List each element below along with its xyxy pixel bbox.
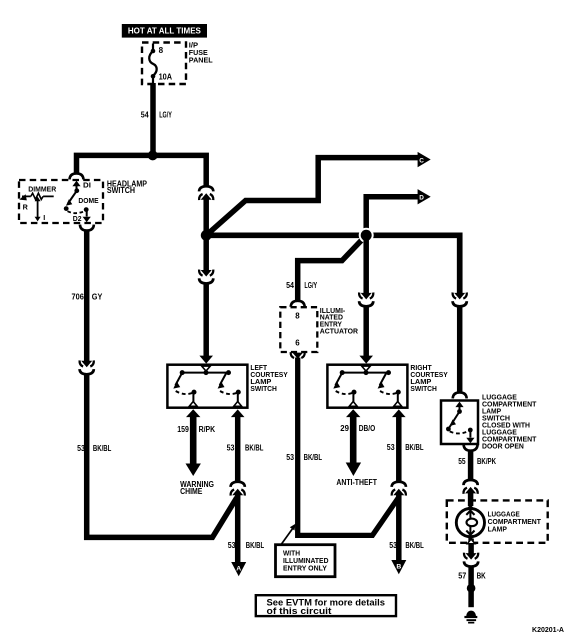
- svg-text:BK/BL: BK/BL: [304, 452, 323, 462]
- svg-text:BK: BK: [477, 570, 487, 580]
- svg-text:CHIME: CHIME: [180, 487, 203, 496]
- headlamp switch bottom pin cup: [80, 225, 94, 231]
- wire junction to right courtesy connector: [363, 235, 369, 294]
- svg-text:LUGGAGE: LUGGAGE: [482, 429, 517, 436]
- fuse 8 10A: [149, 44, 172, 84]
- wire label 55 BK/PK: [458, 456, 496, 466]
- wire 159 R/PK to warning chime: [186, 409, 201, 476]
- actuator top pin cup: [291, 301, 305, 307]
- svg-text:D2: D2: [73, 214, 82, 223]
- svg-text:53: 53: [227, 443, 235, 453]
- svg-text:SWITCH: SWITCH: [410, 384, 437, 393]
- svg-text:GY: GY: [92, 292, 103, 302]
- svg-text:29: 29: [340, 423, 349, 433]
- label RIGHT COURTESY LAMP SWITCH: [410, 363, 448, 393]
- ground G: [464, 611, 477, 624]
- power source label HOT AT ALL TIMES: [122, 24, 207, 38]
- wire 53 BK/BL from right courtesy switch: [392, 409, 406, 482]
- headlamp switch top pin connector cup: [70, 173, 84, 179]
- svg-text:54: 54: [286, 280, 294, 290]
- connector on wire B: [392, 482, 406, 496]
- svg-text:BK/PK: BK/PK: [477, 456, 497, 466]
- luggage compartment lamp bulb: [456, 504, 484, 541]
- wire label 53 BK/BL (left): [77, 443, 112, 453]
- svg-text:53: 53: [228, 540, 236, 550]
- wire label 53 BK/BL (left courtesy): [227, 443, 264, 453]
- svg-text:K20201-A: K20201-A: [532, 625, 565, 634]
- wire label 53 BK/BL (B): [389, 540, 424, 550]
- wire 706 GY from headlamp switch down: [84, 230, 90, 362]
- junction at fuse feed: [148, 150, 158, 160]
- svg-text:53: 53: [387, 442, 395, 452]
- svg-text:COMPARTMENT: COMPARTMENT: [488, 519, 542, 526]
- svg-text:SWITCH: SWITCH: [107, 186, 135, 195]
- wire 53 BK/BL left long run to junction A: [87, 375, 237, 538]
- wire to arrow A: [235, 494, 241, 563]
- luggage compartment lamp switch box: [441, 401, 478, 445]
- label I/P FUSE PANEL: [189, 41, 213, 65]
- right courtesy lamp switch: [327, 365, 407, 408]
- svg-text:53: 53: [286, 452, 294, 462]
- lamp box bottom pin notch: [467, 539, 475, 544]
- feed arrowhead into right courtesy switch: [359, 356, 373, 364]
- wire junction to left courtesy connector: [203, 235, 209, 271]
- callout box WITH ILLUMINATED ENTRY ONLY: [276, 545, 336, 577]
- svg-text:of this circuit: of this circuit: [267, 606, 332, 616]
- wire label 706 GY: [72, 292, 103, 302]
- actuator bottom pin arrow: [291, 352, 305, 359]
- svg-text:C: C: [419, 157, 424, 164]
- connector on luggage feed: [453, 293, 467, 307]
- svg-text:BK/BL: BK/BL: [246, 540, 265, 550]
- svg-text:COMPARTMENT: COMPARTMENT: [482, 401, 537, 408]
- connector on ground wire: [464, 553, 478, 567]
- connector on left courtesy feed: [199, 270, 213, 284]
- connector on courtesy feed wire (female top): [199, 186, 213, 200]
- svg-text:BK/BL: BK/BL: [405, 540, 424, 550]
- svg-text:BK/BL: BK/BL: [93, 443, 112, 453]
- wire label 54 LG/Y (actuator): [286, 280, 317, 290]
- svg-text:B: B: [396, 564, 401, 571]
- wire branch D: [366, 197, 418, 236]
- wire into lamp box: [468, 492, 474, 507]
- svg-text:ENTRY ONLY: ENTRY ONLY: [283, 563, 327, 572]
- headlamp switch internal: dome switch arm: [64, 181, 99, 224]
- svg-text:SWITCH: SWITCH: [250, 384, 277, 393]
- wire 57 BK below lamp: [468, 539, 474, 556]
- wire to left courtesy lamp switch: [203, 283, 209, 357]
- callout arrow: [282, 524, 296, 544]
- svg-text:706: 706: [72, 292, 84, 302]
- svg-text:53: 53: [77, 443, 85, 453]
- connector on right courtesy feed: [359, 293, 373, 307]
- arrow A: [231, 562, 246, 576]
- svg-text:LAMP: LAMP: [488, 527, 508, 534]
- label ILLUMINATED ENTRY ACTUATOR: [320, 307, 358, 335]
- svg-text:8: 8: [159, 46, 164, 55]
- wire label 53 BK/BL (right courtesy): [387, 442, 424, 452]
- note box See EVTM: [256, 595, 396, 616]
- connector on wire A: [231, 482, 245, 496]
- wire from connector to main junction: [203, 198, 209, 235]
- label LUGGAGE COMPARTMENT LAMP: [488, 512, 542, 534]
- svg-text:159: 159: [177, 424, 189, 434]
- wire horizontal to headlamp switch and right drop: [77, 155, 207, 187]
- wire to luggage compartment lamp switch: [457, 306, 463, 392]
- svg-text:53: 53: [389, 540, 397, 550]
- actuator pin labels 8 and 6: [295, 311, 300, 347]
- svg-text:DI: DI: [83, 181, 91, 190]
- wire 55 BK/PK: [468, 450, 474, 480]
- svg-text:HOT AT ALL TIMES: HOT AT ALL TIMES: [128, 27, 202, 36]
- svg-text:BK/BL: BK/BL: [405, 442, 424, 452]
- label LEFT COURTESY LAMP SWITCH: [250, 363, 288, 393]
- svg-text:55: 55: [458, 456, 466, 466]
- wire branch to illuminated entry actuator: [298, 235, 367, 301]
- svg-text:CLOSED WITH: CLOSED WITH: [482, 422, 530, 429]
- svg-text:57: 57: [458, 570, 466, 580]
- svg-text:ACTUATOR: ACTUATOR: [320, 327, 358, 335]
- svg-text:ANTI-THEFT: ANTI-THEFT: [336, 478, 377, 487]
- wire label 53 BK/BL (A): [228, 540, 265, 550]
- svg-text:LG/Y: LG/Y: [159, 109, 172, 119]
- label WARNING CHIME: [180, 480, 214, 496]
- arrow B: [391, 560, 406, 574]
- svg-text:LAMP: LAMP: [482, 408, 502, 415]
- splice dot: [467, 584, 476, 593]
- svg-text:PANEL: PANEL: [189, 56, 213, 65]
- label LUGGAGE COMPARTMENT LAMP SWITCH CLOSED WITH LUGGAGE COMPARTMENT DOOR OPEN: [482, 394, 537, 450]
- wire 29 DB/O to anti-theft: [346, 409, 361, 476]
- luggage compartment lamp dashed box: [447, 500, 548, 542]
- junction main bus left: [201, 230, 212, 241]
- arrow C: [418, 152, 431, 167]
- luggage switch top pin cup: [453, 392, 467, 398]
- svg-text:10A: 10A: [159, 73, 173, 82]
- headlamp switch label: [107, 179, 147, 195]
- wire to right courtesy lamp switch: [363, 306, 369, 357]
- wire 54 LG/Y from fuse down: [150, 83, 156, 158]
- wire to ground: [468, 566, 474, 607]
- svg-text:R/PK: R/PK: [199, 424, 216, 434]
- feed arrowhead into left courtesy switch: [199, 356, 213, 364]
- wire label 29 DB/O: [340, 423, 375, 433]
- left courtesy lamp switch: [167, 365, 247, 408]
- I/P fuse panel dashed box: [142, 43, 186, 85]
- arrow D: [418, 189, 431, 204]
- svg-text:54: 54: [141, 109, 149, 119]
- wire label 159 R/PK: [177, 424, 215, 434]
- connector on luggage lamp wire: [463, 480, 477, 494]
- svg-text:8: 8: [295, 311, 300, 320]
- svg-text:DOME: DOME: [78, 196, 98, 205]
- svg-text:COMPARTMENT: COMPARTMENT: [482, 436, 537, 443]
- wire label 54 LG/Y: [141, 109, 172, 119]
- illuminated entry actuator dashed box: [280, 307, 317, 352]
- wire to arrow B: [396, 494, 402, 561]
- svg-text:6: 6: [295, 339, 300, 348]
- inline connector on left wire: [80, 360, 94, 374]
- wire label 57 BK: [458, 570, 486, 580]
- wire label 53 BK/BL (illuminated entry): [286, 452, 322, 462]
- main bus wire to luggage branch: [204, 235, 460, 294]
- svg-text:LUGGAGE: LUGGAGE: [482, 394, 517, 401]
- headlamp switch internal: dimmer rheostat: [19, 187, 56, 223]
- svg-text:D: D: [419, 195, 424, 202]
- wire with illuminated entry only run: [298, 358, 399, 536]
- svg-text:LG/Y: LG/Y: [304, 280, 317, 290]
- wire branch C: [206, 158, 418, 236]
- junction main bus right: [359, 228, 374, 243]
- svg-text:LUGGAGE: LUGGAGE: [488, 512, 521, 519]
- headlamp switch dashed box: [19, 180, 103, 223]
- wire 53 BK/BL from left courtesy switch: [231, 409, 245, 482]
- svg-text:DOOR OPEN: DOOR OPEN: [482, 443, 524, 450]
- svg-text:I: I: [43, 213, 45, 222]
- svg-text:A: A: [236, 566, 241, 573]
- svg-text:BK/BL: BK/BL: [245, 443, 264, 453]
- svg-text:R: R: [23, 202, 29, 211]
- svg-text:DB/O: DB/O: [359, 423, 376, 433]
- svg-text:SWITCH: SWITCH: [482, 415, 510, 422]
- luggage switch bottom pin cup: [464, 445, 478, 451]
